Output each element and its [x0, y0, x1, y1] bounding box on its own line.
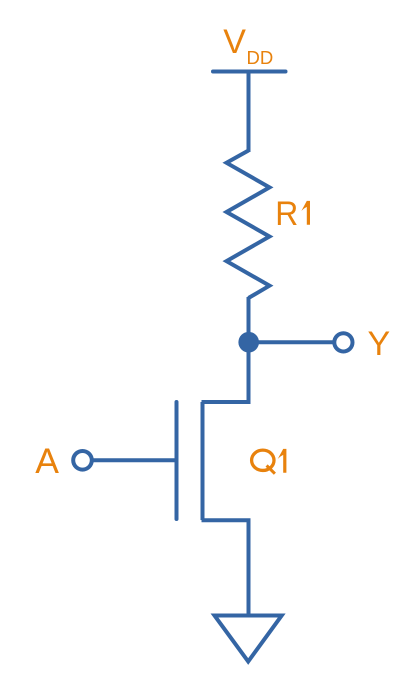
node Y junction	[238, 332, 259, 353]
wire node Y to Q1 drain	[202, 340, 249, 402]
wire resistor R1 to node Y	[247, 297, 251, 344]
wire terminal A to Q1 gate	[93, 458, 177, 462]
Q1 channel line	[201, 402, 205, 520]
transistor Q1	[177, 402, 203, 520]
wire node Y to terminal Y	[249, 340, 335, 344]
resistor R1	[227, 151, 270, 299]
svg-text:V: V	[223, 23, 246, 61]
power rail VDD	[213, 70, 286, 74]
svg-text:A: A	[35, 441, 59, 481]
ground	[215, 616, 282, 662]
svg-text:Y: Y	[368, 325, 391, 363]
wire VDD rail to resistor R1	[247, 72, 251, 153]
label VDD	[223, 23, 273, 68]
terminal A open circle	[73, 451, 92, 470]
label R1	[275, 195, 310, 233]
Q1 gate line	[175, 402, 179, 519]
svg-text:R: R	[275, 195, 298, 233]
label Q1	[252, 449, 287, 474]
wire Q1 source to ground	[202, 520, 249, 613]
terminal Y open circle	[334, 333, 352, 351]
svg-text:DD: DD	[247, 47, 274, 68]
